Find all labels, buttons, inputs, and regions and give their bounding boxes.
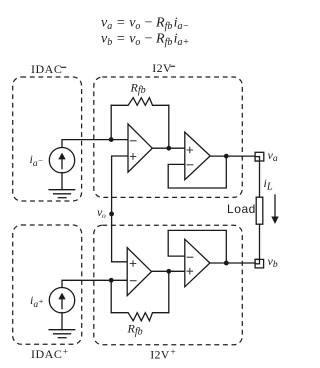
- U3 plus sign: [130, 260, 137, 267]
- wire: U1 noninverting input and vo rail: [112, 156, 128, 262]
- resistor R1 (Rfb, top): [111, 98, 169, 106]
- svg-text:−: −: [144, 16, 153, 31]
- svg-text:ia+: ia+: [174, 32, 190, 49]
- node: U1 inverting input junction: [109, 137, 114, 142]
- svg-text:vb: vb: [101, 32, 112, 49]
- svg-text:vo: vo: [97, 205, 106, 220]
- U1 minus sign: [130, 140, 137, 142]
- ground (IDAC+): [49, 330, 75, 338]
- equation line 1: va = vo - Rfb ia-: [101, 16, 189, 33]
- node: U2 output junction: [224, 154, 229, 159]
- op-amp U3: [127, 248, 151, 296]
- svg-text:ia+: ia+: [30, 293, 44, 310]
- terminal vb: [255, 259, 264, 268]
- svg-text:vb: vb: [268, 254, 278, 270]
- svg-text:Load: Load: [227, 202, 256, 216]
- svg-text:va: va: [101, 16, 112, 33]
- wire: U4 feedback loop: [168, 230, 226, 263]
- svg-text:I2V+: I2V+: [150, 347, 176, 362]
- svg-text:vo: vo: [129, 32, 140, 49]
- U4 plus sign: [187, 268, 194, 275]
- U1 plus sign: [130, 153, 137, 160]
- node: Rfb/U1 output junction: [166, 146, 171, 151]
- wire: U2 output to va terminal: [210, 155, 255, 157]
- wire: Rfb R2 right vertical: [168, 271, 170, 312]
- node vo: [109, 212, 114, 217]
- wire: Rfb R1 right vertical: [168, 105, 170, 148]
- U4 minus sign: [187, 256, 194, 258]
- svg-text:−: −: [144, 32, 153, 47]
- equation line 2: vb = vo - Rfb ia+: [101, 32, 189, 49]
- wire: source to ground: [61, 173, 63, 190]
- svg-text:I2V: I2V: [152, 61, 172, 75]
- wire: Rfb R2 left vertical: [110, 280, 112, 312]
- I2V+ dashed box: [94, 225, 243, 345]
- wire: Rfb R1 left vertical: [110, 105, 112, 139]
- U3 minus sign: [130, 280, 137, 282]
- svg-text:ia−: ia−: [174, 16, 190, 33]
- svg-text:Rfb: Rfb: [127, 322, 143, 338]
- load resistor rectangle: [256, 197, 263, 224]
- U2 minus sign: [187, 164, 194, 166]
- wire: load to vb terminal: [259, 224, 261, 259]
- node: Rfb/U3 output junction: [166, 269, 171, 274]
- ground (IDAC-): [49, 190, 75, 198]
- svg-text:Rfb: Rfb: [155, 16, 172, 33]
- I2V- dashed box: [94, 77, 243, 197]
- wire: source to ground: [61, 313, 63, 330]
- IDAC- dashed box: [13, 77, 82, 201]
- op-amp U4 (buffer): [185, 239, 210, 287]
- op-amp U1: [128, 124, 152, 172]
- wire: U2 feedback loop: [168, 156, 226, 188]
- svg-text:va: va: [268, 148, 278, 164]
- svg-text:iL: iL: [264, 176, 273, 193]
- current source ia+: [49, 288, 74, 313]
- wire: IDAC+ source to op-amp U3 inverting input: [62, 280, 127, 287]
- svg-text:IDAC+: IDAC+: [31, 346, 68, 361]
- node: U4 output junction: [224, 261, 229, 266]
- op-amp U2 (buffer): [185, 132, 210, 180]
- wire: IDAC- source to op-amp U1 inverting input: [62, 140, 128, 148]
- svg-text:Rfb: Rfb: [155, 32, 172, 49]
- svg-text:IDAC: IDAC: [31, 62, 62, 76]
- wire: U4 output to vb terminal: [210, 262, 255, 264]
- current source ia-: [49, 148, 74, 173]
- svg-text:ia−: ia−: [30, 152, 44, 169]
- IDAC+ dashed box: [13, 225, 82, 344]
- resistor R2 (Rfb, bottom): [111, 313, 169, 321]
- svg-text:=: =: [116, 32, 125, 47]
- svg-text:vo: vo: [129, 16, 140, 33]
- terminal va: [255, 152, 264, 161]
- svg-text:Rfb: Rfb: [130, 80, 146, 96]
- node: U3 inverting input junction: [109, 278, 114, 283]
- iL current arrow: [271, 195, 278, 224]
- wire: va terminal down to load: [259, 161, 261, 198]
- wire: U3 output to U4 input: [152, 270, 185, 272]
- wire: U1 output to U2 input: [152, 147, 185, 149]
- U2 plus sign: [187, 147, 194, 154]
- svg-text:=: =: [116, 16, 125, 31]
